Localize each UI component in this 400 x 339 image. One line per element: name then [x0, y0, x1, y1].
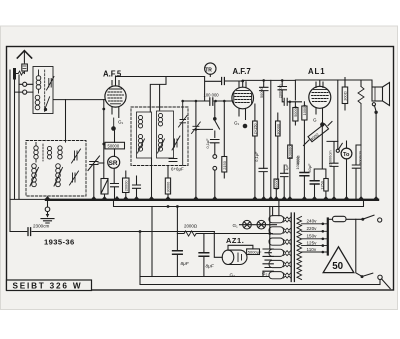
tuning dashed box — [26, 141, 86, 197]
pilot lamps — [240, 220, 277, 229]
earth zigzag — [16, 71, 25, 75]
electrolytic 8uF 1 — [173, 234, 183, 277]
rectifier AZ1 tube — [214, 232, 253, 265]
svg-text:1250: 1250 — [319, 180, 324, 189]
antenna coil top — [36, 70, 41, 93]
wire G2 — [262, 271, 264, 276]
electrolytic 8uF 2 — [199, 234, 209, 277]
tube AL1 — [309, 80, 331, 123]
chassis bus — [10, 198, 46, 200]
svg-text:G₂: G₂ — [262, 271, 268, 276]
svg-text:240v: 240v — [307, 219, 318, 224]
SR circle — [108, 156, 120, 168]
AL1 cathode dot — [320, 122, 324, 126]
svg-text:2150: 2150 — [222, 160, 227, 169]
filter stack — [263, 207, 273, 272]
svg-text:2000Ω: 2000Ω — [184, 224, 198, 229]
svg-text:G₁: G₁ — [234, 121, 240, 126]
svg-text:25000cm: 25000cm — [328, 150, 333, 166]
wire top rail AL1 — [295, 80, 372, 100]
tuning coil D — [30, 164, 39, 187]
speaker switch — [372, 103, 378, 199]
wire pickup branch — [195, 128, 198, 131]
svg-text:SEIBT 326 W: SEIBT 326 W — [13, 281, 83, 290]
mains return B — [140, 284, 380, 286]
svg-text:10000: 10000 — [302, 104, 307, 116]
antenna coil bottom — [35, 95, 49, 111]
IF coil R1 — [158, 113, 162, 126]
trimmer cap col — [192, 101, 201, 199]
wire coil box to grid — [54, 99, 105, 101]
svg-text:40μF: 40μF — [307, 163, 312, 173]
tuning trimmer 1 — [72, 149, 81, 163]
tone switch — [336, 143, 342, 152]
antenna — [17, 51, 31, 62]
svg-text:G₁: G₁ — [233, 223, 239, 228]
wire left vertical 1 — [9, 70, 11, 232]
wire SR down — [113, 168, 115, 183]
capacitor 1uF low — [281, 165, 289, 199]
wire drop 140 — [139, 232, 141, 285]
electrolytic 10uF — [310, 181, 319, 199]
transformer core — [291, 213, 294, 282]
wire switch column — [214, 101, 216, 117]
mains switch bottom — [361, 273, 391, 288]
wire AF7 screen rail — [243, 79, 296, 81]
jack terminals — [213, 155, 217, 199]
svg-text:2000cm: 2000cm — [277, 84, 282, 98]
tuning trimmer 2 — [70, 171, 79, 185]
AF7 cathode dot — [243, 124, 248, 129]
wire AL1 cathode down — [314, 127, 326, 181]
ground — [41, 201, 54, 223]
To circle — [341, 141, 352, 199]
svg-text:2000cm: 2000cm — [357, 151, 362, 165]
rail dots — [262, 79, 265, 82]
capacitor 50000 — [260, 80, 269, 168]
rotated value labels — [123, 84, 362, 192]
TR circle — [205, 63, 216, 77]
wire column 271 — [270, 80, 272, 199]
IF bottom cap — [169, 159, 177, 162]
capacitor 2000cm — [278, 80, 287, 96]
capacitor 2300cm — [10, 228, 214, 236]
wire AF5 anode rail — [116, 76, 205, 78]
resistor box 20000 — [123, 171, 130, 199]
svg-text:100000: 100000 — [287, 145, 292, 159]
wire tuning drop — [65, 100, 67, 142]
resistor box 2150 — [253, 104, 258, 199]
svg-text:50000: 50000 — [108, 144, 120, 149]
coupling capacitor — [205, 77, 245, 102]
capacitor 0.1uF switch — [211, 140, 220, 155]
svg-text:20000: 20000 — [123, 180, 128, 192]
IF trimmer 2 — [172, 136, 180, 150]
antenna coil box — [33, 67, 53, 114]
tuning coil A — [34, 143, 38, 163]
terminal circle 1 — [19, 82, 33, 86]
svg-text:300Ω: 300Ω — [343, 91, 348, 100]
earth blob — [13, 70, 16, 79]
wire fuse drop — [356, 219, 362, 276]
svg-text:50000: 50000 — [293, 105, 298, 117]
tuning core dashed — [42, 144, 44, 161]
mains switch top — [361, 215, 382, 222]
svg-text:8μF: 8μF — [181, 261, 190, 267]
IF inner box R — [157, 111, 174, 158]
svg-text:110v: 110v — [307, 247, 317, 252]
svg-text:30000: 30000 — [275, 123, 280, 135]
svg-text:2×150: 2×150 — [252, 123, 257, 135]
capacitor below AF5 — [111, 184, 119, 200]
resistor box AL1 left 2 — [302, 102, 307, 173]
resistor 30000 box IF — [165, 166, 170, 200]
transformer secondary windings — [269, 216, 291, 279]
fuse — [328, 216, 363, 221]
svg-text:G: G — [313, 118, 317, 123]
resistor box AL1 left 1 — [293, 102, 298, 125]
resistor box 30000 low — [274, 179, 279, 199]
wire tone switch drop — [337, 80, 339, 149]
svg-text:A.F.5: A.F.5 — [103, 70, 122, 79]
svg-text:6+6μF: 6+6μF — [171, 166, 184, 171]
svg-text:AL1: AL1 — [308, 67, 325, 76]
svg-text:1μF: 1μF — [284, 163, 289, 170]
IF transformer dashed box — [131, 107, 188, 166]
IF trimmer 1 — [179, 101, 188, 166]
potentiometer box — [101, 179, 108, 200]
tube AF7 — [232, 82, 254, 120]
svg-text:50: 50 — [332, 261, 343, 272]
secondary return line — [114, 201, 364, 208]
capacitor col 302 — [300, 173, 309, 200]
IF inner box L — [137, 112, 152, 158]
svg-text:50000: 50000 — [259, 86, 264, 98]
wire drop 152 — [151, 207, 153, 277]
AF5 cathode dot — [111, 126, 116, 131]
tuning coil B — [47, 146, 51, 159]
wire left vertical 2 — [14, 78, 16, 199]
svg-text:100 000: 100 000 — [204, 92, 220, 97]
mains return A — [140, 276, 269, 278]
IF coil L2 — [138, 134, 145, 153]
box 5000cm — [247, 249, 260, 255]
border frame — [7, 47, 394, 291]
capacitor 0.1 low — [259, 168, 267, 199]
grid cap to AL1 — [282, 96, 301, 105]
svg-text:0,1μF: 0,1μF — [205, 138, 210, 149]
capacitor 2000cm AL1 — [352, 145, 361, 199]
IF coil R2 — [158, 134, 165, 153]
heater line 233 — [177, 207, 272, 237]
svg-text:TR: TR — [205, 68, 212, 74]
antenna connector — [22, 62, 28, 71]
wire IF input drop — [150, 77, 166, 113]
resistor box 1250 — [324, 179, 328, 200]
svg-text:A.F.7: A.F.7 — [233, 67, 251, 76]
svg-text:30000: 30000 — [166, 181, 171, 193]
svg-text:400Ω: 400Ω — [295, 155, 300, 164]
tuning coil C — [58, 146, 62, 159]
resistor box 100000b — [288, 102, 293, 199]
svg-text:AZ1.: AZ1. — [226, 236, 244, 245]
svg-text:150v: 150v — [307, 234, 318, 239]
svg-text:125v: 125v — [307, 240, 318, 245]
title box — [7, 280, 92, 291]
svg-text:5000μF: 5000μF — [248, 249, 262, 254]
svg-text:G₁: G₁ — [118, 120, 124, 125]
svg-text:30000: 30000 — [274, 178, 279, 190]
grid resistor 100000 — [181, 98, 232, 106]
anode link — [327, 141, 338, 163]
tuning coil E — [54, 164, 63, 187]
svg-text:220v: 220v — [307, 226, 318, 231]
terminal circle 2 — [15, 90, 34, 94]
fuse triangle 50 — [323, 247, 354, 273]
svg-text:2300cm: 2300cm — [33, 223, 50, 228]
resistor 4002 diagonal — [304, 122, 333, 146]
core dashed — [44, 70, 46, 112]
resistor 300ohm box — [342, 78, 348, 111]
svg-text:To: To — [343, 152, 350, 158]
capacitor 2 below AF5 — [133, 176, 141, 199]
speaker — [372, 83, 390, 106]
resistor 50000 box — [105, 131, 125, 156]
transformer primary winding — [297, 217, 302, 280]
svg-text:0,1μF: 0,1μF — [254, 151, 259, 162]
switch AF7 — [196, 117, 220, 138]
svg-text:SR: SR — [109, 160, 118, 167]
resistor box 30000 screen — [276, 113, 281, 179]
wire grid column — [103, 100, 105, 179]
resistor box at jack — [222, 101, 227, 178]
svg-text:1935-36: 1935-36 — [44, 238, 75, 247]
transformer taps — [302, 223, 328, 254]
variable capacitor — [88, 156, 104, 199]
tube AF5 — [105, 77, 126, 118]
svg-text:G₂: G₂ — [230, 273, 236, 278]
bus junctions — [45, 196, 379, 199]
wire IF box drops — [151, 158, 153, 199]
voltage selector bar — [327, 219, 329, 255]
capacitor 25000cm — [330, 163, 338, 199]
field coil zigzag — [358, 87, 364, 200]
wire left vertical 3 — [18, 75, 20, 199]
svg-text:8μF: 8μF — [206, 264, 215, 270]
transformer feed wires — [273, 200, 279, 216]
antenna trimmer — [47, 77, 55, 91]
IF coil L1 — [138, 115, 142, 128]
